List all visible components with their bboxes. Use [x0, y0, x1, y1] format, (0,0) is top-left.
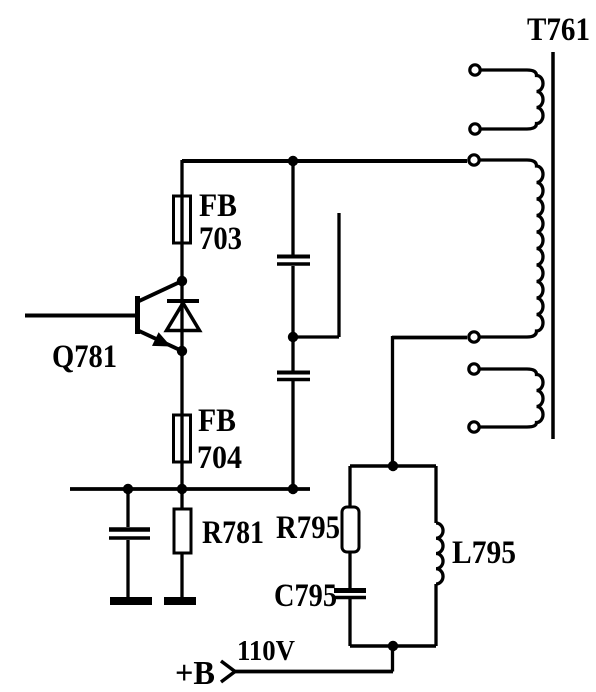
svg-text:703: 703 [199, 221, 242, 257]
svg-text:110V: 110V [237, 636, 295, 667]
svg-text:R795: R795 [276, 510, 340, 546]
svg-text:R781: R781 [202, 515, 264, 551]
svg-text:L795: L795 [452, 535, 516, 571]
svg-text:FB: FB [198, 403, 236, 439]
svg-text:+B: +B [175, 655, 215, 692]
svg-text:T761: T761 [527, 12, 590, 48]
svg-text:FB: FB [199, 188, 237, 224]
svg-text:Q781: Q781 [52, 339, 117, 375]
svg-text:C795: C795 [274, 578, 337, 614]
svg-text:704: 704 [197, 440, 242, 476]
